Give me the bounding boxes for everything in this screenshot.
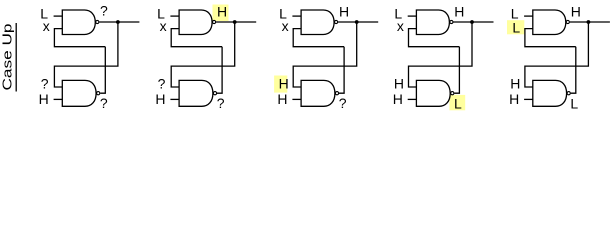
wire: input H to U2B pin 2 xyxy=(170,98,179,100)
inversion bubble U3A output xyxy=(335,20,338,23)
svg-text:H: H xyxy=(394,75,404,91)
wire: feedback node Q down-left to U1B top input xyxy=(54,22,118,87)
inversion bubble U5A output xyxy=(566,20,569,23)
NAND gate U2B (bottom) xyxy=(179,80,213,106)
wire: input H to U4B pin 2 xyxy=(408,98,417,100)
svg-text:H: H xyxy=(393,91,403,107)
svg-text:L: L xyxy=(570,95,578,111)
wire: input L to U2A pin 1 xyxy=(170,15,179,17)
NAND gate U4A (top) xyxy=(416,10,449,35)
wire: U3A output to node Q xyxy=(338,21,378,23)
wire: feedback node Q down-left to U4B top input xyxy=(409,22,473,87)
inversion bubble U4A output xyxy=(450,20,453,23)
wire: feedback Qn left and up to U5A lower input xyxy=(525,29,576,47)
highlight on output node Qn (L) of circuit 4 xyxy=(449,95,465,110)
svg-text:H: H xyxy=(339,3,349,19)
svg-text:H: H xyxy=(217,3,227,19)
node Q junction dot circuit 5 xyxy=(587,20,591,24)
wire: feedback Qn left and up to U1A lower input xyxy=(54,29,105,47)
wire: U1A output to node Q xyxy=(99,21,139,23)
svg-text:L: L xyxy=(512,20,520,36)
inversion bubble U2B output xyxy=(213,92,216,95)
wire: U1B output right then up xyxy=(100,47,105,93)
wire: feedback node Q down-left to U3B top input xyxy=(293,22,357,87)
wire: input L to U1A pin 1 xyxy=(54,15,63,17)
inversion bubble U3B output xyxy=(335,92,338,95)
NAND gate U4B (bottom) xyxy=(416,80,450,106)
node Q junction dot circuit 1 xyxy=(116,20,120,24)
svg-text:x: x xyxy=(43,18,50,34)
NAND gate U3A (top) xyxy=(301,10,334,35)
NAND gate U2A (top) xyxy=(179,10,212,35)
wire: feedback node Q down-left to U5B top input xyxy=(525,22,589,87)
wire: feedback Qn left and up to U3A lower input xyxy=(293,29,344,47)
inversion bubble U1A output xyxy=(96,20,99,23)
svg-text:H: H xyxy=(509,91,519,107)
svg-text:?: ? xyxy=(339,95,347,111)
wire: input L to U5A pin 1 xyxy=(524,15,533,17)
svg-text:H: H xyxy=(571,3,581,19)
wire: U2B output right then up xyxy=(217,47,222,93)
svg-text:x: x xyxy=(160,18,167,34)
highlight on output node Q (H) of circuit 2 xyxy=(213,5,229,22)
wire: U2A output to node Q xyxy=(216,21,256,23)
svg-text:?: ? xyxy=(217,95,225,111)
svg-text:?: ? xyxy=(100,3,108,19)
svg-text:L: L xyxy=(454,95,462,111)
svg-text:x: x xyxy=(282,18,289,34)
wire: input H to U5B pin 2 xyxy=(524,98,533,100)
svg-text:Case Up: Case Up xyxy=(0,24,15,91)
inversion bubble U4B output xyxy=(451,92,454,95)
svg-text:H: H xyxy=(277,91,287,107)
wire: input L to U3A pin 1 xyxy=(292,15,301,17)
highlight on gate U5A lower input (L) xyxy=(507,20,524,34)
wire: feedback node Q down-left to U2B top input xyxy=(171,22,235,87)
wire: U4B output right then up xyxy=(454,47,459,93)
svg-text:?: ? xyxy=(100,95,108,111)
node Q junction dot circuit 4 xyxy=(470,20,474,24)
wire: feedback Qn left and up to U2A lower input xyxy=(171,29,222,47)
inversion bubble U2A output xyxy=(213,20,216,23)
inversion bubble U1B output xyxy=(97,92,100,95)
NAND gate U1A (top) xyxy=(62,10,95,35)
NAND gate U3B (bottom) xyxy=(301,80,335,106)
highlight on gate U3B top input (H) xyxy=(274,76,287,93)
wire: U5A output to node Q xyxy=(570,21,610,23)
wire: input L to U4A pin 1 xyxy=(408,15,417,17)
svg-text:H: H xyxy=(279,75,289,91)
caption underline xyxy=(15,23,17,92)
svg-text:?: ? xyxy=(41,75,49,91)
node Q junction dot circuit 2 xyxy=(233,20,237,24)
wire: input H to U1B pin 2 xyxy=(54,98,63,100)
svg-text:x: x xyxy=(397,18,404,34)
NAND gate U5B (bottom) xyxy=(533,80,567,106)
svg-text:?: ? xyxy=(158,75,166,91)
NAND gate U5A (top) xyxy=(533,10,566,35)
wire: U3B output right then up xyxy=(339,47,344,93)
svg-text:H: H xyxy=(510,75,520,91)
svg-text:H: H xyxy=(454,3,464,19)
wire: feedback Qn left and up to U4A lower input xyxy=(409,29,460,47)
node Q junction dot circuit 3 xyxy=(355,20,359,24)
svg-text:H: H xyxy=(39,91,49,107)
wire: U4A output to node Q xyxy=(453,21,493,23)
NAND gate U1B (bottom) xyxy=(62,80,96,106)
inversion bubble U5B output xyxy=(567,92,570,95)
wire: input H to U3B pin 2 xyxy=(292,98,301,100)
svg-text:H: H xyxy=(155,91,165,107)
wire: U5B output right then up xyxy=(571,47,576,93)
